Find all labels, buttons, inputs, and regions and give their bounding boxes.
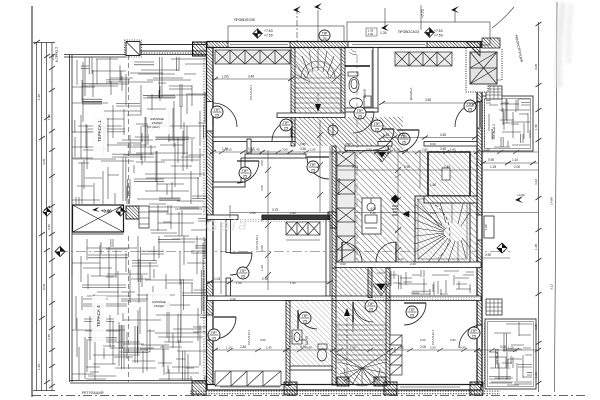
svg-text:1.30: 1.30: [380, 31, 387, 35]
svg-text:1.45: 1.45: [444, 165, 450, 169]
bedroom1 bottom wall: [213, 137, 295, 142]
svg-text:2.40: 2.40: [266, 346, 272, 350]
main top wall: [207, 42, 481, 48]
terrace 2: [486, 99, 530, 147]
svg-text:2.40: 2.40: [410, 262, 416, 266]
svg-text:2.40: 2.40: [398, 257, 404, 261]
shaft room top-right of living: [424, 152, 477, 203]
svg-text:3.50: 3.50: [425, 98, 431, 102]
svg-text:ТЕРАСА 1: ТЕРАСА 1: [97, 120, 102, 142]
living west wall: [332, 146, 336, 268]
svg-text:0.90: 0.90: [300, 338, 306, 342]
svg-text:3.50: 3.50: [300, 147, 306, 151]
svg-text:1.50: 1.50: [534, 124, 538, 130]
svg-text:1.85: 1.85: [450, 148, 456, 152]
svg-text:СТЪЛБИЩЕ: СТЪЛБИЩЕ: [351, 315, 355, 332]
svg-text:+7.59: +7.59: [434, 34, 443, 38]
svg-text:3.50: 3.50: [260, 160, 264, 166]
right bedroom wardrobe: [395, 52, 452, 66]
svg-text:БАНЯ: БАНЯ: [363, 89, 367, 98]
svg-text:1.50: 1.50: [310, 148, 316, 152]
svg-text:4.05: 4.05: [42, 159, 46, 165]
winder stair in living (fan): [415, 196, 470, 262]
svg-text:3.50: 3.50: [260, 338, 266, 342]
balcony behind living: [377, 270, 474, 295]
bedroom1 wardrobe: [215, 50, 290, 64]
svg-text:1.50: 1.50: [236, 281, 242, 285]
svg-text:+7.63: +7.63: [264, 29, 273, 33]
vertical dim in living: [395, 152, 401, 262]
svg-text:1.85: 1.85: [398, 346, 404, 350]
svg-text:2.40: 2.40: [290, 211, 296, 215]
entry steps small: [126, 206, 139, 219]
svg-text:2.00: 2.00: [430, 346, 436, 350]
svg-text:+7.73: +7.73: [421, 9, 425, 18]
svg-text:3.50: 3.50: [345, 142, 351, 146]
bedroom2 top wall: [207, 215, 238, 220]
svg-text:ТЕРАСА 2: ТЕРАСА 2: [492, 124, 496, 140]
bedroom2 shelf row: [286, 222, 320, 240]
living light hatch: [336, 151, 477, 263]
svg-text:0.90: 0.90: [450, 338, 456, 342]
svg-text:КЪРДО: КЪРДО: [154, 304, 165, 308]
svg-text:1.20: 1.20: [484, 148, 490, 152]
svg-text:3.75: 3.75: [272, 208, 278, 212]
svg-text:0.90: 0.90: [340, 262, 346, 266]
svg-text:+7.63: +7.63: [434, 29, 443, 33]
svg-text:0.90: 0.90: [488, 158, 494, 162]
svg-text:1.45: 1.45: [37, 94, 41, 100]
svg-text:0.90: 0.90: [306, 346, 312, 350]
svg-text:+0.00: +0.00: [101, 209, 112, 214]
svg-text:3.50: 3.50: [282, 148, 288, 152]
right dimension chains: [538, 22, 540, 392]
svg-text:3.50: 3.50: [440, 147, 446, 151]
upper stair hatch: [295, 48, 341, 114]
svg-text:РЕГУЛАЦИЯ: РЕГУЛАЦИЯ: [82, 391, 104, 395]
svg-text:1.20: 1.20: [260, 215, 264, 221]
top-right bedroom dims: [382, 102, 475, 104]
terrace 3: [489, 322, 532, 385]
svg-text:ПРОВОСАОЗ: ПРОВОСАОЗ: [398, 30, 419, 34]
vertical wardrobe strip at living west: [337, 152, 355, 262]
bedroom3 closet bottom: [215, 371, 281, 386]
svg-text:(.20): (.20): [222, 75, 229, 79]
living top wall: [345, 146, 388, 151]
svg-text:1.30: 1.30: [368, 32, 374, 36]
svg-text:К.ТРРО Т: К.ТРРО Т: [55, 47, 59, 62]
svg-text:1.20: 1.20: [508, 346, 514, 350]
funnel symbols: [373, 152, 390, 296]
bath1 fixtures: [345, 49, 372, 108]
svg-text:1.20: 1.20: [260, 265, 264, 271]
living bottom wall: [336, 262, 481, 268]
dashed regulation line bottom: [32, 395, 588, 397]
svg-text:1.40: 1.40: [399, 133, 405, 137]
svg-text:2.45: 2.45: [47, 334, 51, 340]
svg-text:ТЕРАСА 3: ТЕРАСА 3: [495, 349, 499, 365]
svg-text:1.03: 1.03: [214, 277, 220, 281]
svg-text:3.40: 3.40: [47, 224, 51, 230]
closet nook zigzag walls: [213, 182, 245, 187]
svg-text:1.48: 1.48: [534, 244, 538, 250]
svg-text:1.85: 1.85: [300, 142, 306, 146]
svg-text:5.05: 5.05: [42, 284, 46, 290]
right wall small box (1.00): [484, 216, 494, 238]
stair1 walls: [291, 48, 295, 118]
bath2 fixtures: [292, 330, 327, 361]
bath1 walls: [373, 48, 378, 113]
svg-text:3.12: 3.12: [534, 179, 538, 185]
svg-text:1.30: 1.30: [350, 346, 356, 350]
lower stair hatch: [336, 268, 386, 385]
lower stair: [336, 308, 386, 386]
svg-text:3.05: 3.05: [534, 64, 538, 70]
svg-text:1.85: 1.85: [383, 133, 389, 137]
svg-text:0.90: 0.90: [366, 148, 372, 152]
svg-text:1.25: 1.25: [490, 165, 496, 169]
axis dash line vertical: [356, 55, 358, 262]
stairwell walls: [332, 268, 336, 385]
svg-text:2.00: 2.00: [260, 245, 264, 251]
svg-text:3.12: 3.12: [550, 284, 554, 290]
svg-text:2.00: 2.00: [514, 165, 520, 169]
svg-text:1.40: 1.40: [385, 147, 391, 151]
svg-text:2.00: 2.00: [420, 345, 426, 349]
right wall: [477, 48, 482, 386]
svg-text:1.10: 1.10: [226, 148, 232, 152]
svg-text:0.90: 0.90: [430, 142, 436, 146]
kitchen block: [362, 198, 381, 234]
faint scan streak top right: [558, 2, 571, 88]
svg-text:СПАЛНЯ 2: СПАЛНЯ 2: [255, 234, 259, 250]
svg-text:3.50: 3.50: [260, 185, 264, 191]
svg-text:1.20: 1.20: [370, 211, 376, 215]
svg-text:0.90: 0.90: [460, 346, 466, 350]
svg-text:1.10: 1.10: [512, 158, 518, 162]
corridor dense hatch: [295, 117, 403, 146]
svg-text:1.40: 1.40: [254, 148, 260, 152]
rotated chain labels left: [37, 47, 59, 370]
dashed axes in terrace: [128, 55, 130, 205]
small grid shaft box: [391, 195, 409, 217]
svg-text:2.00: 2.00: [420, 338, 426, 342]
south band: [207, 296, 481, 301]
svg-text:3.05: 3.05: [500, 345, 506, 349]
bottom wall: [207, 385, 481, 391]
svg-text:ТЕРАСА 4: ТЕРАСА 4: [96, 305, 101, 327]
svg-text:1.60: 1.60: [430, 183, 436, 187]
svg-text:СПАЛНЯ 3: СПАЛНЯ 3: [247, 329, 251, 345]
svg-text:3.50: 3.50: [440, 133, 446, 137]
skylight box: [73, 205, 124, 234]
svg-text:+7.59: +7.59: [264, 34, 273, 38]
svg-text:1.20: 1.20: [394, 148, 400, 152]
window grids: [486, 86, 502, 315]
axis dash-dot horizontal: [58, 251, 510, 253]
upper stair treads + fan: [295, 49, 341, 112]
svg-text:СПАЛНЯ 1: СПАЛНЯ 1: [249, 84, 253, 100]
svg-text:Gaia: Gaia: [206, 216, 250, 235]
svg-text:1.90: 1.90: [534, 372, 538, 378]
rotated chain labels right: [534, 64, 554, 378]
svg-text:(47.42м²): (47.42м²): [147, 125, 160, 129]
ground dotted strip under building: [190, 391, 500, 396]
bedroom right bottom wall: [378, 142, 392, 147]
top-left wall band: [126, 45, 207, 52]
svg-text:1.45: 1.45: [37, 364, 41, 370]
svg-text:2.95: 2.95: [422, 148, 428, 152]
svg-text:2.95: 2.95: [250, 211, 256, 215]
svg-text:СПАЛНЯ 4: СПАЛНЯ 4: [431, 329, 435, 345]
bedroom1 interior dims: [215, 78, 291, 80]
svg-text:0.90: 0.90: [485, 253, 491, 257]
svg-text:СТЪЛБИЩЕ: СТЪЛБИЩЕ: [337, 178, 341, 195]
top-right balcony structure: [466, 38, 502, 92]
svg-text:0.90: 0.90: [404, 165, 410, 169]
bedroom3 / bath2 walls: [286, 301, 290, 386]
insulation dotted strips: [204, 57, 486, 384]
svg-text:1.10: 1.10: [226, 346, 232, 350]
svg-text:14.88: 14.88: [550, 197, 554, 205]
bath2 light hatch: [290, 301, 332, 367]
svg-text:+0.00: +0.00: [517, 193, 525, 197]
svg-text:0.75: 0.75: [352, 165, 358, 169]
svg-text:ДНЕВНА: ДНЕВНА: [409, 88, 413, 100]
tiny dimension numbers: [214, 147, 520, 349]
svg-text:3.46: 3.46: [248, 75, 254, 79]
svg-text:2.00: 2.00: [430, 211, 436, 215]
svg-text:1.50: 1.50: [290, 281, 296, 285]
svg-text:1.50: 1.50: [47, 114, 51, 120]
svg-text:1.00: 1.00: [484, 224, 488, 230]
svg-text:ПРОВОЛОЧЕ: ПРОВОЛОЧЕ: [234, 18, 256, 22]
svg-text:2.40: 2.40: [230, 297, 236, 301]
left wall: [207, 48, 214, 386]
svg-text:3.05: 3.05: [534, 324, 538, 330]
bedroom4 closet: [390, 335, 402, 375]
svg-text:2.45: 2.45: [240, 345, 246, 349]
